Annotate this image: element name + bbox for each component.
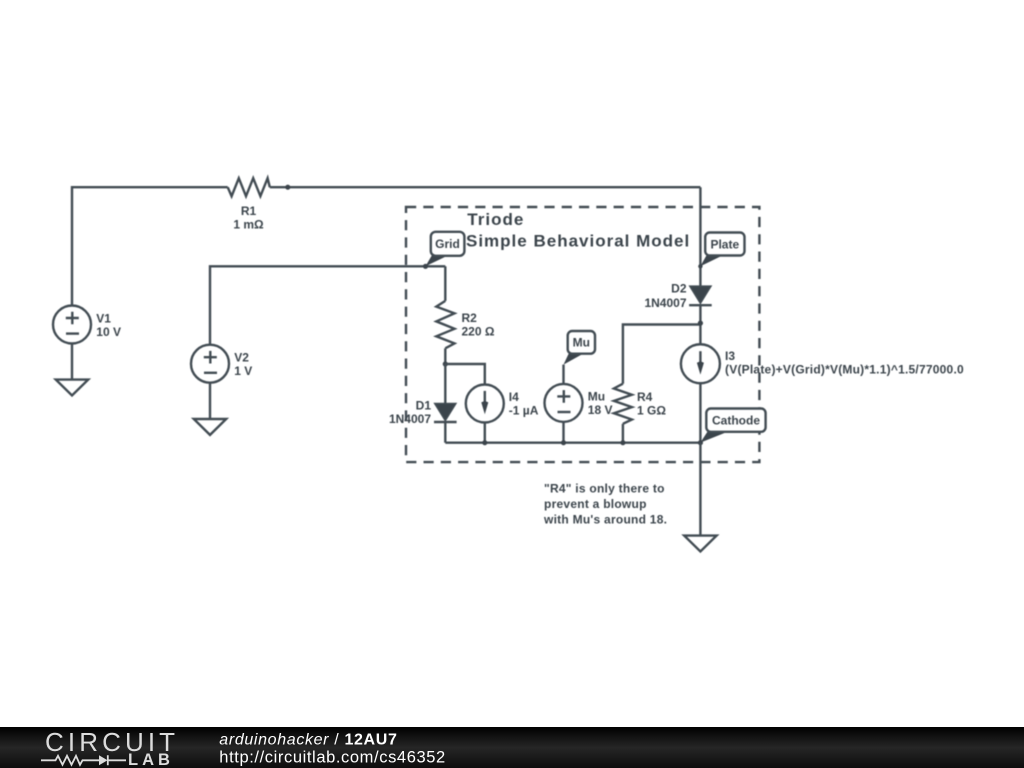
wire: D1 cathode to bottom rail <box>444 422 446 443</box>
svg-text:D2: D2 <box>671 282 687 296</box>
voltage source Mu <box>545 384 583 422</box>
svg-text:D1: D1 <box>416 399 432 413</box>
wire: V2 bottom to ground <box>209 383 211 419</box>
wire: grid node down to R2 top <box>444 266 446 301</box>
wire: I4 bottom to rail <box>484 423 486 443</box>
resistor R1 <box>228 178 270 196</box>
svg-text:1 V: 1 V <box>234 364 252 378</box>
svg-text:LAB: LAB <box>128 751 174 768</box>
svg-text:1N4007: 1N4007 <box>389 412 431 426</box>
wire: V1 bottom to ground <box>71 344 73 380</box>
svg-text:Simple Behavioral Model: Simple Behavioral Model <box>466 232 690 251</box>
svg-text:Plate: Plate <box>710 237 739 251</box>
svg-text:prevent a blowup: prevent a blowup <box>544 497 647 511</box>
svg-text:1 GΩ: 1 GΩ <box>637 404 666 418</box>
flag Cathode <box>700 409 765 443</box>
dashed box: Triode Simple Behavioral Model <box>406 207 759 462</box>
junction dot right of R1 <box>285 185 290 190</box>
flag Mu <box>564 331 596 365</box>
svg-text:I3: I3 <box>725 349 735 363</box>
svg-text:R4: R4 <box>637 390 653 404</box>
wire: Mu bottom to rail <box>562 422 564 443</box>
junction dot I4/rail <box>482 440 487 445</box>
wire: top corner down to D2 anode <box>699 187 701 285</box>
svg-text:Grid: Grid <box>435 237 460 251</box>
flag Grid <box>426 232 465 266</box>
svg-text:"R4" is only there to: "R4" is only there to <box>544 482 665 496</box>
wire: junction down to D1 anode <box>444 364 446 404</box>
wire: R4 top lead up and right to plate branch <box>623 325 701 384</box>
current source I3 <box>681 344 720 383</box>
svg-text:V2: V2 <box>234 351 249 365</box>
junction dot R4/rail <box>620 440 625 445</box>
svg-text:18 V: 18 V <box>588 403 613 417</box>
node dot at Plate flag tip <box>698 264 702 268</box>
svg-text:Mu: Mu <box>573 336 590 350</box>
svg-text:R1: R1 <box>241 204 257 218</box>
wire: V2 top up and right to grid node <box>210 266 445 344</box>
wire: D2 cathode to I3 top <box>699 304 701 344</box>
svg-text:Mu: Mu <box>588 389 605 403</box>
ground under V1 <box>56 380 88 396</box>
wire: cathode node down to ground <box>699 443 701 536</box>
ground under V2 <box>194 419 226 435</box>
footer bar <box>0 727 1024 768</box>
svg-text:http://circuitlab.com/cs46352: http://circuitlab.com/cs46352 <box>219 749 446 767</box>
svg-text:10 V: 10 V <box>96 325 121 339</box>
resistor R2 <box>436 301 454 348</box>
wire: I3 bottom to cathode rail <box>699 383 701 442</box>
wire: Mu flag tip down to Mu source top <box>562 365 564 384</box>
svg-text:1N4007: 1N4007 <box>644 296 686 310</box>
diode D2 <box>689 286 712 305</box>
svg-text:R2: R2 <box>462 311 478 325</box>
svg-text:I4: I4 <box>509 390 519 404</box>
voltage source V1 <box>53 306 91 344</box>
svg-text:-1 µA: -1 µA <box>509 404 539 418</box>
flag Plate <box>700 233 744 267</box>
voltage source V2 <box>191 345 229 383</box>
svg-text:1 mΩ: 1 mΩ <box>233 217 264 231</box>
current source I4 <box>466 385 504 423</box>
svg-text:(V(Plate)+V(Grid)*V(Mu)*1.1)^1: (V(Plate)+V(Grid)*V(Mu)*1.1)^1.5/77000.0 <box>725 363 964 377</box>
svg-text:with Mu's around 18.: with Mu's around 18. <box>543 513 667 527</box>
junction dot cathode node <box>698 440 703 445</box>
wire: R4 bottom to rail <box>622 424 624 443</box>
svg-text:arduinohacker / 12AU7: arduinohacker / 12AU7 <box>219 731 397 748</box>
wire: R2 bottom to junction <box>444 348 446 364</box>
junction dot below R2 <box>443 361 448 366</box>
logo resistor-diode glyph <box>41 755 126 765</box>
svg-text:V1: V1 <box>96 312 111 326</box>
wire top-left: V1 top up and across to R1 left terminal <box>72 187 228 305</box>
svg-text:220 Ω: 220 Ω <box>462 324 495 338</box>
wire: R1 right terminal to top-right corner <box>270 186 701 188</box>
resistor R4 <box>614 384 632 424</box>
bottom rail wire <box>445 442 700 444</box>
ground at cathode <box>684 536 716 552</box>
svg-text:Triode: Triode <box>467 210 524 229</box>
junction dot Mu/rail <box>561 440 566 445</box>
svg-text:Cathode: Cathode <box>712 414 760 428</box>
junction dot D2/I3/R4 <box>698 321 703 326</box>
junction dot grid node <box>423 264 428 269</box>
wire: junction right and down to I4 top <box>445 364 485 385</box>
diode D1 <box>434 404 457 423</box>
